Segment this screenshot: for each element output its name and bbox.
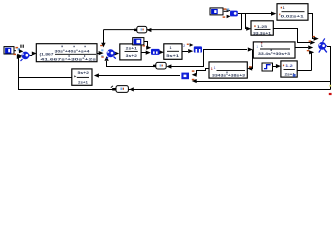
wire: sum S2 output into block U4 <box>114 52 117 54</box>
arrowhead into U5 <box>159 50 164 54</box>
block U2: transfer fcn 1.25/(33.3s+1) <box>251 21 273 36</box>
arrowhead into RL main input <box>146 51 151 55</box>
constant C1 (top) <box>210 8 227 15</box>
dashed arrows from C1 into sum S_top <box>223 8 231 18</box>
svg-text:33.4s²+30s+3: 33.4s²+30s+3 <box>258 52 290 56</box>
svg-text:1: 1 <box>211 67 213 71</box>
step source ST (blue step) <box>262 63 273 71</box>
arrowhead into U2 <box>246 27 251 31</box>
sum S4 (blue, right) <box>318 38 327 52</box>
sum S5 (blue square, bottom) <box>181 73 189 80</box>
wire: block U7 output up to sum S4 input 4 <box>297 53 312 71</box>
arrowhead into block U4 <box>114 51 119 55</box>
rate limiter RL (small blue block) <box>151 49 160 55</box>
arrowhead left into block U6 right input <box>247 66 252 70</box>
wire: branch at x=252.5 down into block U6 right input (mirrored) <box>251 50 254 69</box>
wire: block U6 output (mirrored) elbow down-left into sum S5 top-right input <box>197 69 210 75</box>
svg-text:2s+1: 2s+1 <box>126 47 137 51</box>
arrowhead into gain G1 <box>32 52 37 56</box>
arrowhead into S4 input 4 from below <box>309 50 314 54</box>
wire: sum S4 output right, down, bottom feedback to left riser x=18.5 up to sum S1 <box>19 47 331 91</box>
wire: block U8 output left at y=78 joining left riser <box>18 77 72 79</box>
svg-text:30s²+40s²+s+4: 30s²+40s²+s+4 <box>55 50 90 54</box>
wire: bottom tap y=81.5 from output riser into sum S5 lower-right input <box>196 81 331 83</box>
arrowhead into U1 <box>271 12 276 16</box>
svg-text:3343s²+38s+3: 3343s²+38s+3 <box>212 74 245 78</box>
arrowhead into RL top input <box>146 46 151 50</box>
wire: sum S3 output right to block U3 input <box>203 49 247 51</box>
wire: branch down at x=245 into block U2 input <box>246 14 247 29</box>
arrowhead into sum S3 <box>188 49 193 53</box>
arrowhead left into sum S5 top-right <box>192 73 197 77</box>
arrowhead left into delay D1 on top loop <box>147 28 152 32</box>
wire: block U3 output to sum S4 input 3 <box>295 47 308 49</box>
arrowhead into block U3 <box>248 47 253 51</box>
wire: step source output into block U7 <box>273 66 277 68</box>
wire: rate limiter RL output into block U5 <box>160 52 161 54</box>
sum S_top (blue) <box>227 8 238 16</box>
constant C3 (above U4, blue) <box>133 38 144 45</box>
wire: sum S5 output left y=75.6 into block U8 right input (mirrored) <box>99 75 181 77</box>
arrowhead left into delay D3 on bottom loop <box>129 87 133 91</box>
block U8: transfer fcn (5s+2)/(2s+1), mirrored <box>72 69 92 85</box>
block U7: transfer fcn 1.2/(2s+1) <box>281 61 297 77</box>
arrowhead into S4 input 2 <box>310 40 315 44</box>
block U4: transfer fcn (2s+1)/(3s+2) <box>120 44 141 60</box>
colored mark inside U7 bottom right <box>293 74 296 77</box>
svg-text:2s+1: 2s+1 <box>78 80 88 84</box>
colored dash near U4/C3 elbow <box>143 45 145 46</box>
arrowhead up into sum S2 bottom <box>104 56 108 61</box>
arrowhead up into sum S1 from bottom riser <box>17 55 22 59</box>
constant C2 (left) <box>4 47 16 54</box>
svg-text:5s+2: 5s+2 <box>78 71 90 75</box>
orange dashes near S5 inputs <box>192 70 195 71</box>
svg-text:5s+1: 5s+1 <box>166 54 179 58</box>
svg-text:3s+2: 3s+2 <box>126 54 137 58</box>
block U3: transfer fcn 1/(33.4s^2+30s+3) <box>253 42 295 58</box>
wire: delay D2 output left then up into sum S2 bottom input <box>107 61 154 67</box>
svg-text:(1.867: (1.867 <box>40 53 54 57</box>
sum S2 (blue, after G1) <box>101 49 116 59</box>
wire: sum S1 output into gain G1 <box>30 55 32 57</box>
dashed arrows from C2 into sum S1 <box>13 47 23 58</box>
arrowhead into sum S2 left <box>99 51 104 55</box>
transport delay D1 (mirrored, on top loop) <box>134 26 147 33</box>
svg-text:1: 1 <box>256 45 258 49</box>
orange dash near S4 top input <box>313 36 315 37</box>
orange dash near S4 input4 <box>307 50 309 51</box>
block U1: transfer fcn 1/(0.02s+1) <box>277 4 308 21</box>
sum S3 (blue, after U5) <box>187 43 202 52</box>
transport delay D3 (mirrored, on bottom loop) <box>111 86 129 93</box>
svg-text:1: 1 <box>261 44 263 48</box>
arrowhead left into sum S5 bottom-right <box>192 79 197 83</box>
orange dash near U6 right input <box>249 66 252 67</box>
svg-text:1: 1 <box>214 66 216 70</box>
wire: block U1 output elbow down to sum S4 top input <box>308 14 314 39</box>
arrowhead into S4 input 3 <box>308 45 313 49</box>
svg-text:1: 1 <box>170 46 172 50</box>
arrowhead into block U7 from step <box>276 64 281 68</box>
block U5: transfer fcn 1/(5s+1) <box>164 44 182 60</box>
wire: branch at x=203.5 down, feedback left y=65.7 to delay D2 <box>171 50 204 67</box>
svg-text:33.3s+1: 33.3s+1 <box>253 32 271 36</box>
sum S1 (blue) <box>21 52 31 61</box>
yellow tick on output riser <box>329 85 331 87</box>
svg-text:41.667s³+30s²+2s: 41.667s³+30s²+2s <box>41 58 97 62</box>
arrowhead left into block U8 right input <box>94 73 99 77</box>
svg-text:2: 2 <box>183 44 185 48</box>
wire: branch down at x=241 then long left wire y=30 to x=103 down to sum S2 <box>104 14 242 43</box>
dark dashes above sum S1 <box>20 45 21 48</box>
svg-text:0.02s+1: 0.02s+1 <box>281 14 304 18</box>
orange dash near S4 input2 <box>309 41 311 42</box>
wire: sum S_top output to block U1 <box>238 13 271 15</box>
svg-text:1.2: 1.2 <box>285 64 293 68</box>
svg-text:1.25: 1.25 <box>257 25 267 29</box>
wire: block U4 output into rate limiter RL <box>141 52 146 54</box>
wire: constant C3 elbow down into rate limiter RL top input <box>144 42 148 48</box>
wire: gain G1 output into sum S2 <box>97 53 99 55</box>
arrowhead into S4 top input <box>314 37 319 41</box>
svg-text:1: 1 <box>283 6 285 10</box>
orange dash near S2 top <box>100 45 102 46</box>
red marker bottom right <box>329 93 332 95</box>
orange dash near S2 bottom <box>101 56 103 57</box>
block U6: transfer fcn 1/(3343s^2+38s+3), mirrored <box>209 62 247 78</box>
arrowhead down at x=103 into sum S2 top <box>101 43 105 48</box>
transport delay D2 (mirrored, mid feedback) <box>153 62 166 69</box>
wire: block U2 output elbow to sum S4 input 2 <box>273 29 310 43</box>
arrowhead left into delay D2 <box>166 64 171 68</box>
gain/LTI block G1: 1.867*(30s^2+40s+1)/(41.67s^3+30s^2+2) <box>36 44 97 62</box>
wire: block U5 output into sum S3 <box>182 51 188 53</box>
